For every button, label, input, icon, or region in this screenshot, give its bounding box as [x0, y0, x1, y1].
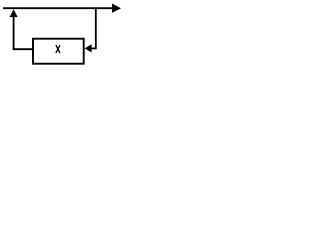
box X	[33, 39, 84, 64]
arrowhead: up arrow into top line	[10, 9, 18, 17]
background	[0, 0, 123, 71]
label X (drawn as strokes for crisp match)	[56, 45, 60, 53]
wire: bottom-left horizontal connector into box	[13, 48, 33, 50]
arrowhead: top line pointing right	[112, 4, 121, 13]
wire: right vertical branch down from top line	[95, 8, 97, 48]
wire: left vertical (output of X up to top line)	[13, 17, 15, 50]
arrowhead: pointing left into box right side	[85, 44, 92, 52]
wire: top horizontal line	[3, 7, 113, 9]
wire: short horizontal into left arrowhead	[91, 47, 97, 49]
